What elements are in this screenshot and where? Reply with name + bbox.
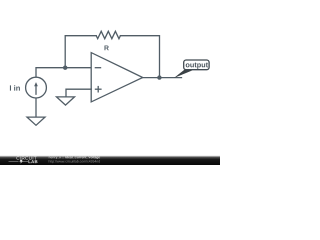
output flag box	[184, 60, 209, 70]
current source I1 circle	[26, 77, 47, 98]
logo lightning bolt	[20, 160, 24, 164]
node A junction dot	[63, 66, 67, 70]
output flag pointer	[174, 69, 193, 78]
logo wire line	[9, 160, 29, 162]
current source I1 arrow shaft	[35, 86, 37, 94]
output flag label	[186, 63, 208, 69]
ground at op-amp non-inverting input	[57, 97, 75, 105]
logo LAB	[28, 160, 37, 163]
wire: node A to op-amp inverting input	[65, 67, 91, 69]
op-amp minus pin mark	[95, 67, 102, 69]
footer credit line 1 username	[49, 156, 64, 159]
op-amp U1	[91, 53, 143, 102]
op-amp plus pin mark	[95, 86, 102, 93]
wire: non-inverting input to ground elbow	[66, 89, 91, 96]
logo CIRCUIT	[16, 156, 36, 159]
footer black bar top edge	[0, 155, 220, 158]
wire: feedback left vertical	[65, 36, 96, 68]
wire: current source top to node A	[36, 68, 65, 78]
label I in	[10, 85, 20, 91]
ground under current source	[27, 117, 45, 125]
label R	[104, 45, 108, 50]
wire: current source bottom to ground	[35, 98, 37, 117]
footer black bar body	[0, 158, 220, 165]
wire: resistor to right vertical down to output node	[120, 36, 159, 78]
footer credit line 1 title	[65, 156, 100, 159]
resistor R zigzag	[96, 31, 120, 38]
footer credit line 2	[49, 160, 100, 163]
current source I1 arrowhead	[34, 82, 38, 86]
wire: op-amp output to flag	[143, 77, 182, 79]
output node junction dot	[157, 75, 161, 79]
